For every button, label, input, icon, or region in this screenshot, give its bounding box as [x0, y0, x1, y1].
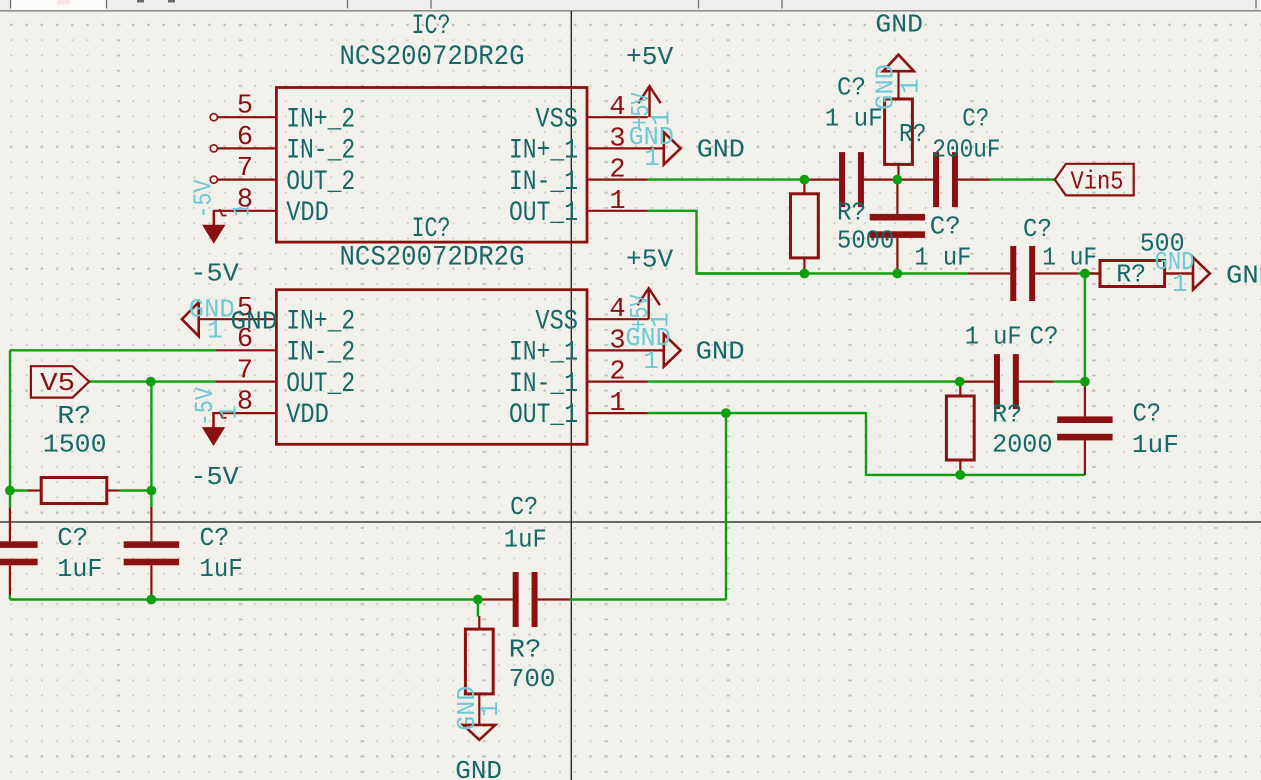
capacitor C7 1uF — [1057, 416, 1112, 423]
svg-text:1 uF: 1 uF — [914, 243, 971, 273]
resistor R1 — [885, 99, 913, 164]
svg-text:6: 6 — [237, 123, 253, 153]
wire C6 right — [1053, 380, 1085, 382]
resistor R6 green stub — [477, 600, 479, 617]
wire IC2.IN-_1 net — [648, 380, 960, 382]
op-amp IC2 body NCS20072DR2G — [276, 290, 587, 445]
capacitor C2 200uF — [933, 152, 939, 207]
svg-text:5: 5 — [237, 92, 253, 122]
wire C4 to R500 — [1078, 272, 1100, 274]
capacitor C6 1uF — [994, 354, 1000, 409]
wire IC2.IN-_2 rail — [10, 349, 215, 351]
junction node (477,599) — [473, 595, 483, 605]
svg-text:2: 2 — [609, 156, 625, 186]
IC2 pin 4 line — [587, 318, 649, 320]
wire lower rail y273 — [697, 272, 968, 274]
svg-text:GND: GND — [697, 135, 745, 165]
svg-text:NCS20072DR2G: NCS20072DR2G — [340, 42, 525, 73]
junction node (151,490) — [147, 486, 157, 496]
capacitor C1 1uF — [839, 152, 845, 207]
svg-text:R?: R? — [57, 401, 91, 431]
junction node (897,273) — [893, 269, 903, 279]
resistor R6 700 — [465, 629, 493, 694]
svg-text:IC?: IC? — [412, 214, 451, 245]
hidden pin tick IC1 p8 — [220, 209, 227, 216]
svg-text:GND: GND — [875, 10, 923, 40]
svg-text:IN-_2: IN-_2 — [286, 136, 355, 167]
IC1 pin 1 line — [587, 210, 648, 212]
svg-text:-5V: -5V — [190, 387, 220, 426]
svg-text:C?: C? — [200, 523, 230, 553]
resistor R3 500 — [1100, 261, 1165, 287]
IC2 pin 3 line — [587, 349, 664, 351]
wire C2 to Vin5 label — [990, 178, 1055, 180]
junction node (897,179) — [893, 175, 903, 185]
power GND stem R500 — [1165, 272, 1193, 274]
sheet border horizontal line — [0, 521, 1261, 523]
svg-text:C?: C? — [930, 212, 961, 242]
power +5V symbol at IC1 pin4 — [648, 86, 650, 117]
junction node (1084,381) — [1080, 377, 1090, 387]
svg-text:VDD: VDD — [286, 198, 329, 229]
svg-text:+5V: +5V — [626, 42, 674, 72]
svg-text:R?: R? — [509, 635, 542, 665]
IC2 pin 5 line — [199, 318, 277, 320]
wire vertical x151 — [150, 382, 152, 507]
svg-text:7: 7 — [237, 154, 253, 184]
wire V5 to IC2.OUT_2 — [89, 380, 215, 382]
junction node (726,413) — [721, 408, 731, 418]
power -5V symbol at IC1 pin8 — [213, 211, 215, 226]
svg-text:1: 1 — [475, 701, 505, 717]
sheet border vertical line — [570, 11, 572, 780]
power GND arrow at IC2 pin5 — [182, 302, 199, 336]
svg-text:IN-_1: IN-_1 — [509, 369, 578, 400]
svg-text:-5V: -5V — [190, 259, 239, 289]
wire stub — [150, 595, 152, 600]
wire vertical left x10 — [9, 350, 11, 507]
svg-text:VSS: VSS — [535, 104, 578, 135]
svg-text:200uF: 200uF — [932, 135, 1000, 165]
resistor R4 2000 — [946, 396, 974, 460]
svg-text:1uF: 1uF — [504, 525, 547, 555]
svg-text:C?: C? — [57, 523, 88, 553]
power GND symbol below R6 — [463, 725, 495, 740]
svg-text:GND: GND — [1226, 261, 1261, 291]
svg-text:OUT_2: OUT_2 — [286, 369, 355, 400]
power GND arrow right of R500 — [1193, 257, 1210, 289]
svg-text:C?: C? — [962, 104, 989, 134]
svg-text:-5V: -5V — [189, 179, 219, 218]
svg-text:IN+_1: IN+_1 — [509, 136, 578, 167]
svg-text:7: 7 — [237, 356, 253, 386]
wire IC1.IN-_1 to C1 net — [648, 178, 806, 180]
svg-text:3: 3 — [609, 124, 625, 154]
IC1 pin 3 line — [587, 147, 664, 149]
resistor R5 1500 — [41, 478, 107, 504]
svg-text:1: 1 — [643, 346, 659, 376]
svg-text:8: 8 — [237, 388, 253, 418]
IC1 pin 6 line — [217, 147, 276, 149]
wire stub — [9, 595, 11, 600]
resistor R2 5000 — [791, 194, 819, 258]
svg-text:IN-_1: IN-_1 — [509, 167, 578, 198]
capacitor C9 1uF — [124, 541, 179, 548]
junction node (959,381) — [955, 377, 965, 387]
svg-text:1: 1 — [609, 187, 625, 217]
svg-text:1uF: 1uF — [200, 554, 243, 584]
svg-text:1: 1 — [644, 143, 660, 173]
svg-text:1500: 1500 — [43, 430, 107, 460]
svg-text:1 uF: 1 uF — [1042, 242, 1097, 272]
svg-text:8: 8 — [237, 185, 253, 215]
svg-text:V5: V5 — [40, 368, 75, 398]
IC1 pin 2 line — [587, 179, 648, 181]
svg-text:1: 1 — [896, 78, 926, 94]
svg-text:R?: R? — [837, 198, 866, 228]
svg-text:VSS: VSS — [535, 306, 578, 337]
wire vertical x726 — [725, 413, 727, 599]
junction node (804,273) — [800, 269, 810, 279]
wire vertical x1085 — [1084, 274, 1086, 382]
op-amp IC1 body NCS20072DR2G — [276, 88, 587, 243]
svg-text:R?: R? — [899, 119, 926, 149]
svg-text:1uF: 1uF — [57, 554, 102, 584]
global label Vin5 — [1055, 164, 1134, 196]
svg-text:C?: C? — [1023, 214, 1052, 244]
svg-text:-5V: -5V — [190, 462, 239, 492]
svg-text:1: 1 — [1172, 269, 1188, 299]
svg-text:5000: 5000 — [837, 226, 894, 256]
junction node (151,599) — [147, 595, 157, 605]
svg-text:GND: GND — [231, 307, 278, 337]
junction node (1084,273) — [1080, 269, 1090, 279]
svg-text:1: 1 — [207, 316, 223, 346]
svg-text:700: 700 — [509, 664, 556, 694]
IC2 pin 2 line — [587, 381, 648, 383]
svg-text:Vin5: Vin5 — [1071, 167, 1124, 197]
capacitor C10 1uF — [513, 572, 519, 627]
wire bottom rail left — [10, 598, 480, 600]
svg-text:1: 1 — [609, 389, 625, 419]
svg-text:C?: C? — [1133, 399, 1162, 429]
junction node (960,474) — [955, 470, 965, 480]
IC2 pin 7 line — [215, 381, 276, 383]
svg-text:+5V: +5V — [626, 245, 674, 275]
IC2 pin 6 line — [215, 349, 276, 351]
svg-text:R?: R? — [1116, 260, 1146, 290]
IC2 pin 8 line — [214, 413, 277, 428]
junction node (804,179) — [800, 175, 810, 185]
resistor R5 wire stubs — [10, 489, 27, 491]
svg-text:3: 3 — [609, 326, 625, 356]
IC2 pin 1 line — [587, 412, 648, 414]
wire bottom rail right — [570, 598, 726, 600]
toolbar strip — [0, 0, 1261, 11]
svg-text:C?: C? — [510, 492, 538, 522]
svg-text:NCS20072DR2G: NCS20072DR2G — [340, 243, 525, 274]
junction node (9,490) — [5, 486, 15, 496]
svg-text:GND: GND — [455, 756, 502, 780]
svg-text:OUT_1: OUT_1 — [509, 198, 578, 229]
svg-text:1 uF: 1 uF — [965, 322, 1022, 352]
svg-text:IC?: IC? — [412, 11, 451, 42]
power GND symbol above R1 — [883, 55, 914, 72]
svg-text:2: 2 — [609, 358, 625, 388]
capacitor C3 1uF — [870, 214, 925, 221]
global label V5 — [31, 366, 89, 397]
svg-text:R?: R? — [992, 400, 1022, 430]
svg-text:GND: GND — [696, 337, 745, 367]
svg-text:IN-_2: IN-_2 — [286, 338, 355, 369]
svg-text:OUT_1: OUT_1 — [509, 400, 578, 431]
hidden pin tick IC2 p8 — [220, 411, 227, 418]
IC1 pin 7 line — [217, 179, 276, 181]
power GND arrow at IC1 pin3 — [664, 132, 681, 164]
wire IC1.OUT_1 down to lower rail — [648, 211, 806, 274]
svg-text:C?: C? — [837, 73, 866, 103]
svg-text:2000: 2000 — [992, 430, 1052, 460]
IC1 pin 8 line — [214, 211, 276, 225]
svg-text:1uF: 1uF — [1132, 430, 1179, 460]
svg-text:VDD: VDD — [286, 400, 329, 431]
svg-text:4: 4 — [609, 295, 625, 325]
svg-text:C?: C? — [1030, 322, 1059, 352]
power -5V symbol at IC2 pin8 — [212, 413, 214, 428]
IC1 pin 5 line — [217, 116, 276, 118]
svg-text:IN+_2: IN+_2 — [286, 104, 355, 135]
capacitor C8 1uF — [0, 541, 38, 548]
svg-text:OUT_2: OUT_2 — [286, 167, 355, 198]
power +5V symbol at IC2 pin4 — [648, 288, 650, 319]
power GND arrow at IC2 pin3 — [664, 334, 681, 366]
svg-text:IN+_1: IN+_1 — [509, 338, 578, 369]
junction node (150,381) — [146, 377, 156, 387]
svg-text:IN+_2: IN+_2 — [286, 306, 355, 337]
capacitor C4 1uF — [1010, 246, 1016, 301]
svg-text:1: 1 — [646, 312, 676, 328]
wire IC2.OUT_1 to feedback rail — [648, 413, 1085, 475]
svg-text:4: 4 — [609, 93, 625, 123]
IC1 pin 4 line — [587, 116, 648, 118]
